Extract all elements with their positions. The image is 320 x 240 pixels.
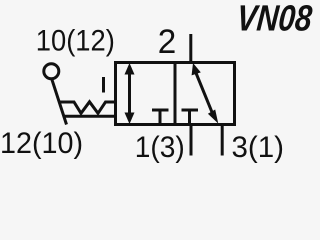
port 1(3) line [190,126,193,156]
svg-text:1(3): 1(3) [135,131,185,164]
lever arm [52,79,67,124]
left arrow top head [125,63,135,75]
right box diagonal arrow shaft [196,73,212,112]
svg-text:3(1): 3(1) [232,131,285,164]
left arrow bottom head [125,113,135,125]
svg-text:VN08: VN08 [235,0,314,39]
port 2 line [189,34,192,62]
svg-text:12(10): 12(10) [0,127,83,160]
left box blocked port T [152,109,169,112]
divider between positions [174,61,177,126]
roller circle of lever actuator [44,64,59,79]
svg-text:2: 2 [158,23,177,61]
right box blocked port T [182,109,199,112]
spring (zigzag) with top rail [59,102,115,114]
bottom rail of actuator [64,115,117,118]
svg-text:10(12): 10(12) [36,25,115,58]
tick mark above spring [102,77,105,93]
port 3(1) line [221,126,224,156]
left box vertical double arrow shaft [128,69,131,118]
diagonal arrow top head [192,63,201,75]
diagonal arrow bottom head [208,110,218,124]
valve body outer rectangle [116,63,235,125]
